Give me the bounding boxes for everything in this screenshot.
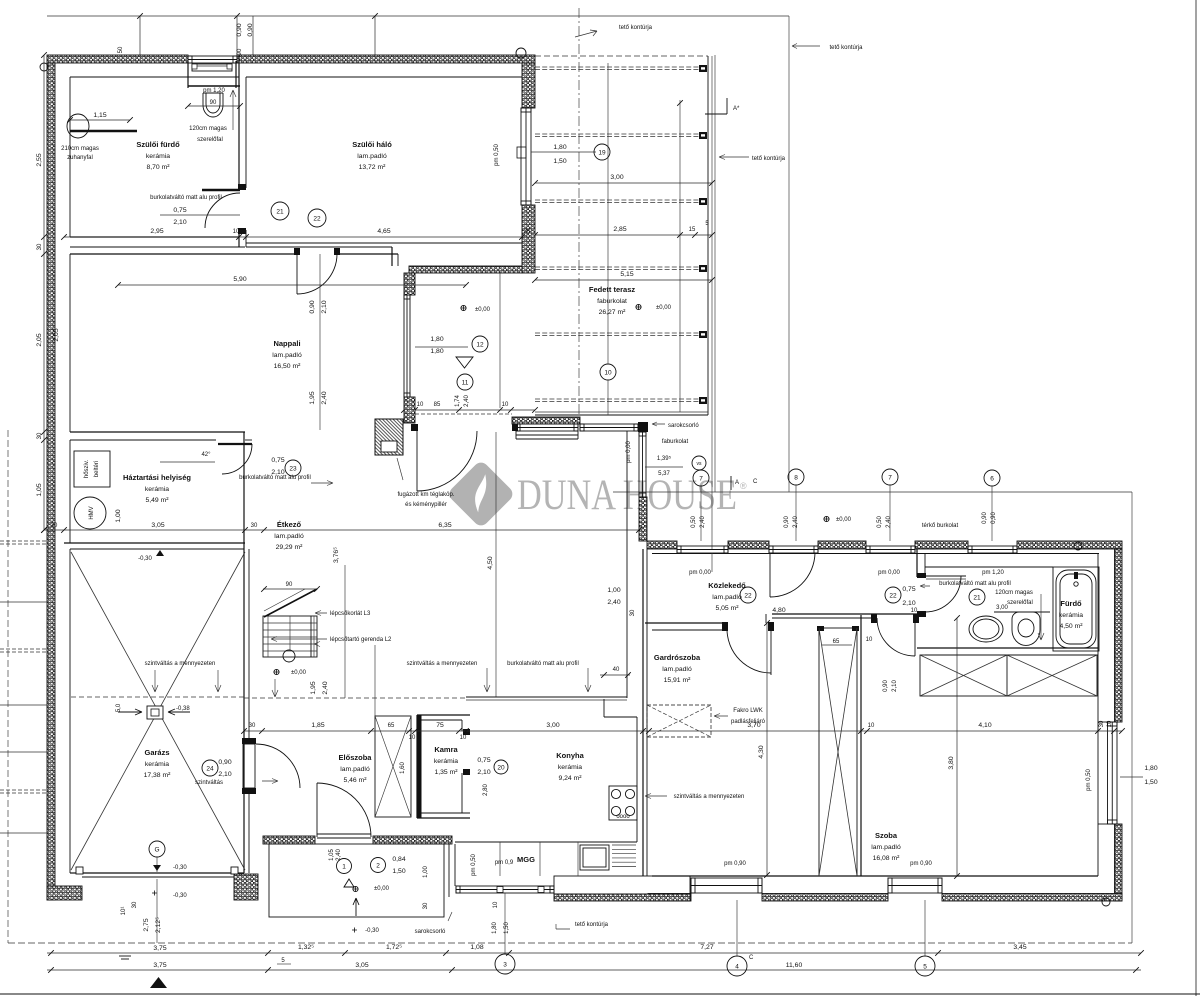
svg-text:1,50: 1,50 xyxy=(392,868,405,875)
svg-text:0,84: 0,84 xyxy=(392,856,405,863)
svg-text:Fürdő: Fürdő xyxy=(1060,599,1082,608)
svg-text:lam.padló: lam.padló xyxy=(662,666,692,673)
svg-text:0,75: 0,75 xyxy=(271,457,284,464)
HMV circle xyxy=(74,497,106,529)
svg-text:4,65: 4,65 xyxy=(377,228,390,235)
svg-text:Háztartási helyiség: Háztartási helyiség xyxy=(123,473,191,482)
szerelofal line xyxy=(994,611,1050,613)
svg-text:30: 30 xyxy=(251,523,258,529)
grid circles bottom xyxy=(495,954,515,974)
svg-text:30: 30 xyxy=(249,723,256,729)
svg-text:10: 10 xyxy=(417,402,424,408)
svg-text:beltéri: beltéri xyxy=(94,461,100,477)
svg-text:pm 0,90: pm 0,90 xyxy=(724,861,746,867)
gardrob door xyxy=(770,629,772,675)
svg-text:lam.padló: lam.padló xyxy=(340,766,370,773)
svg-text:Közlekedő: Közlekedő xyxy=(708,581,746,590)
svg-text:2,40: 2,40 xyxy=(464,395,470,407)
porch slab xyxy=(269,844,444,917)
svg-text:90: 90 xyxy=(237,48,243,55)
B mark + triangle bottom left xyxy=(119,955,131,957)
svg-text:pm 1,20: pm 1,20 xyxy=(203,88,225,94)
main horizontal dim row xyxy=(244,730,1122,732)
svg-text:tető kontúrja: tető kontúrja xyxy=(829,45,863,51)
svg-text:2,10: 2,10 xyxy=(902,600,915,607)
wall xyxy=(512,417,580,424)
svg-text:faburkolat: faburkolat xyxy=(662,439,689,445)
toilet niche bedroom top xyxy=(187,61,189,88)
svg-text:2,95: 2,95 xyxy=(150,228,163,235)
svg-text:8,70 m²: 8,70 m² xyxy=(146,164,170,171)
closet2 in szoba xyxy=(920,655,1097,696)
bath washbasin oval xyxy=(67,114,89,138)
svg-text:5,15: 5,15 xyxy=(620,271,633,278)
corner post sarokoszlop xyxy=(638,422,648,432)
garage door opening xyxy=(82,872,234,874)
nappali dim 5,90 xyxy=(118,284,466,286)
garage walls xyxy=(64,542,245,544)
svg-text:10: 10 xyxy=(1107,720,1113,727)
svg-text:kerámia: kerámia xyxy=(145,486,169,493)
svg-text:±0,00: ±0,00 xyxy=(836,517,852,523)
svg-text:1,80: 1,80 xyxy=(430,336,443,343)
svg-text:1,00: 1,00 xyxy=(607,587,620,594)
kitchen window mullions + jamb xyxy=(497,887,503,893)
svg-text:3,75: 3,75 xyxy=(153,962,166,969)
svg-text:2,10: 2,10 xyxy=(321,300,328,313)
svg-text:tető kontúrja: tető kontúrja xyxy=(752,156,786,162)
roof contour xyxy=(47,15,789,17)
dim 6,35 / 4,50 xyxy=(264,529,639,531)
wing west wall inner xyxy=(642,549,644,876)
svg-text:10: 10 xyxy=(493,901,499,908)
svg-text:7: 7 xyxy=(699,475,703,482)
svg-text:Konyha: Konyha xyxy=(556,751,584,760)
svg-text:65: 65 xyxy=(833,639,840,645)
etkezo door double xyxy=(512,424,518,431)
svg-text:pm 0,00: pm 0,00 xyxy=(626,441,632,463)
svg-text:30: 30 xyxy=(37,432,43,439)
svg-text:13,72 m²: 13,72 m² xyxy=(359,164,387,171)
svg-text:10: 10 xyxy=(233,229,240,235)
wall xyxy=(915,541,968,549)
corridor south wall xyxy=(772,613,917,615)
svg-text:pm 0,50: pm 0,50 xyxy=(1086,769,1092,791)
svg-text:lépcsőtartó gerenda L2: lépcsőtartó gerenda L2 xyxy=(330,637,392,643)
svg-text:1,72⁵: 1,72⁵ xyxy=(386,944,402,951)
svg-text:pm 0,9: pm 0,9 xyxy=(495,860,514,866)
svg-text:1,05: 1,05 xyxy=(329,849,335,861)
wall xyxy=(373,836,452,844)
wall xyxy=(263,836,315,844)
svg-text:0,90: 0,90 xyxy=(784,516,790,528)
wall xyxy=(818,541,866,549)
bath shower wall xyxy=(70,130,137,133)
svg-text:26,27 m²: 26,27 m² xyxy=(599,309,627,316)
section A bottom xyxy=(730,476,732,490)
svg-text:térkő burkolat: térkő burkolat xyxy=(922,523,959,529)
svg-text:0,50: 0,50 xyxy=(877,516,883,528)
svg-text:-0,30: -0,30 xyxy=(173,865,187,871)
svg-text:0,90: 0,90 xyxy=(883,680,889,692)
svg-text:fugázott km téglaköp.: fugázott km téglaköp. xyxy=(397,492,454,498)
svg-text:10: 10 xyxy=(604,369,612,376)
svg-text:lam.padló: lam.padló xyxy=(712,594,742,601)
svg-text:42°: 42° xyxy=(201,452,211,458)
svg-text:hősziv.: hősziv. xyxy=(84,460,90,479)
window dim 1,80/1,50 xyxy=(531,151,596,153)
svg-text:A*: A* xyxy=(733,106,740,112)
eloszoba wardrobe xyxy=(375,716,411,817)
watermark Duna House logo xyxy=(446,459,747,528)
kitchen xyxy=(466,696,627,698)
wall xyxy=(47,886,82,900)
bedroom south wall xyxy=(70,246,245,248)
svg-text:2,40: 2,40 xyxy=(322,681,329,694)
svg-text:szerelőfal: szerelőfal xyxy=(1007,600,1033,606)
svg-text:90: 90 xyxy=(286,582,293,588)
gardrob north wall xyxy=(645,622,727,624)
svg-text:15: 15 xyxy=(689,227,696,233)
svg-text:10: 10 xyxy=(460,735,467,741)
wall xyxy=(728,541,769,549)
bath door arc xyxy=(925,576,961,612)
bath south wall xyxy=(917,647,1098,649)
svg-text:2,80: 2,80 xyxy=(483,784,489,796)
svg-text:3,45: 3,45 xyxy=(1013,944,1026,951)
svg-text:22: 22 xyxy=(744,592,752,599)
svg-text:30: 30 xyxy=(37,243,43,250)
wall exterior top right xyxy=(237,55,535,63)
svg-text:-0,30: -0,30 xyxy=(173,893,187,899)
svg-text:65: 65 xyxy=(388,723,395,729)
svg-text:0,90: 0,90 xyxy=(247,23,254,36)
szoba door xyxy=(913,614,919,623)
svg-text:0,75: 0,75 xyxy=(173,207,186,214)
svg-text:10: 10 xyxy=(866,637,873,643)
svg-text:12: 12 xyxy=(476,341,484,348)
svg-text:22: 22 xyxy=(889,592,897,599)
svg-text:5,0: 5,0 xyxy=(116,703,122,712)
svg-text:szintváltás: szintváltás xyxy=(195,780,223,786)
svg-text:vs: vs xyxy=(697,461,703,467)
svg-text:lam.padló: lam.padló xyxy=(272,352,302,359)
svg-text:HMV: HMV xyxy=(89,506,95,519)
svg-text:Gardrószoba: Gardrószoba xyxy=(654,653,701,662)
svg-text:7,27: 7,27 xyxy=(700,944,713,951)
svg-text:30: 30 xyxy=(132,901,138,908)
nappali room xyxy=(69,254,71,432)
svg-text:4: 4 xyxy=(735,963,739,970)
kitchen south wall block xyxy=(554,876,690,894)
svg-text:3,05: 3,05 xyxy=(151,522,164,529)
svg-text:30: 30 xyxy=(630,609,636,616)
svg-text:29,29 m²: 29,29 m² xyxy=(276,544,304,551)
bath fixtures xyxy=(1053,567,1099,651)
terrace: Fedett terasz xyxy=(535,55,708,57)
sink xyxy=(580,845,609,870)
svg-text:pm 0,00: pm 0,00 xyxy=(878,570,900,576)
svg-text:0,75: 0,75 xyxy=(477,757,490,764)
svg-text:Szülői háló: Szülői háló xyxy=(352,140,392,149)
svg-text:2,12⁵: 2,12⁵ xyxy=(155,917,162,933)
bedroom door arc xyxy=(297,254,337,294)
page frame xyxy=(1195,0,1197,996)
bottom dimension rows xyxy=(47,952,1141,954)
svg-text:2,05: 2,05 xyxy=(36,333,43,346)
wall xyxy=(522,63,535,108)
svg-text:±0,00: ±0,00 xyxy=(656,305,672,311)
garage X cross xyxy=(71,552,245,870)
svg-text:4,50 m²: 4,50 m² xyxy=(1059,623,1083,630)
wall wing west xyxy=(639,497,647,541)
toilet right wing xyxy=(1012,612,1040,645)
svg-text:±0,00: ±0,00 xyxy=(374,886,390,892)
svg-text:22: 22 xyxy=(313,215,321,222)
svg-text:1,15: 1,15 xyxy=(93,112,106,119)
wall xyxy=(942,894,1122,902)
svg-text:2: 2 xyxy=(376,862,380,869)
svg-text:és kéménypillér: és kéménypillér xyxy=(405,502,447,508)
svg-text:2,85: 2,85 xyxy=(613,226,626,233)
level marks porch xyxy=(337,859,352,874)
svg-text:tető kontúrja: tető kontúrja xyxy=(619,25,653,31)
svg-text:1,08: 1,08 xyxy=(470,944,483,951)
top dimension lines xyxy=(139,16,141,55)
stairs xyxy=(263,616,317,657)
svg-text:sarokcsorló: sarokcsorló xyxy=(415,929,446,935)
wall xyxy=(762,894,888,902)
svg-text:-0,38: -0,38 xyxy=(176,706,190,712)
svg-text:2,10: 2,10 xyxy=(218,771,231,778)
wall xyxy=(554,894,690,901)
svg-text:3,05: 3,05 xyxy=(355,962,368,969)
svg-text:9,24 m²: 9,24 m² xyxy=(558,775,582,782)
svg-text:0,90: 0,90 xyxy=(236,23,243,36)
svg-text:1,50: 1,50 xyxy=(553,158,566,165)
svg-text:1,74: 1,74 xyxy=(455,395,461,407)
wall xyxy=(1115,824,1123,901)
cooktop xyxy=(609,786,637,820)
svg-text:Szoba: Szoba xyxy=(875,831,898,840)
svg-text:3: 3 xyxy=(503,961,507,968)
fakro attic xyxy=(647,705,711,737)
kemeny pillar xyxy=(375,419,403,455)
svg-text:C: C xyxy=(749,955,754,961)
svg-text:±0,00: ±0,00 xyxy=(475,307,491,313)
toilet xyxy=(188,85,240,87)
svg-text:szerelőfal: szerelőfal xyxy=(197,137,223,143)
svg-text:burkolatváltó matt alu profil: burkolatváltó matt alu profil xyxy=(939,581,1011,587)
svg-text:Nappali: Nappali xyxy=(273,339,300,348)
svg-text:23: 23 xyxy=(289,465,297,472)
svg-text:4,10: 4,10 xyxy=(978,722,991,729)
garage-eloszoba door xyxy=(242,738,256,744)
wall xyxy=(404,397,415,423)
svg-text:1,32⁵: 1,32⁵ xyxy=(298,944,314,951)
svg-text:11,60: 11,60 xyxy=(786,962,803,969)
svg-text:2,10: 2,10 xyxy=(271,469,284,476)
svg-text:10: 10 xyxy=(868,723,875,729)
svg-text:szintváltás a mennyezeten: szintváltás a mennyezeten xyxy=(145,661,216,667)
svg-text:szintváltás a mennyezeten: szintváltás a mennyezeten xyxy=(674,794,745,800)
right wing floor lines xyxy=(652,875,1098,877)
svg-text:burkolatváltó matt alu profil: burkolatváltó matt alu profil xyxy=(507,661,579,667)
svg-text:3,70: 3,70 xyxy=(747,722,760,729)
svg-text:3,00: 3,00 xyxy=(610,174,623,181)
svg-text:2,40: 2,40 xyxy=(336,849,342,861)
dim 40 niche xyxy=(600,674,630,676)
svg-text:10¹: 10¹ xyxy=(121,907,127,916)
svg-text:-0,30: -0,30 xyxy=(365,928,379,934)
svg-text:120cm magas: 120cm magas xyxy=(995,590,1033,596)
wall xyxy=(1017,541,1122,549)
svg-text:85: 85 xyxy=(434,402,441,408)
svg-text:szintváltás a mennyezeten: szintváltás a mennyezeten xyxy=(407,661,478,667)
svg-text:C: C xyxy=(753,479,758,485)
vertical dims right wing xyxy=(766,623,768,875)
svg-text:0,90: 0,90 xyxy=(309,300,316,313)
svg-text:sarokcsorló: sarokcsorló xyxy=(668,423,699,429)
wall xyxy=(1115,549,1123,722)
svg-text:10: 10 xyxy=(502,402,509,408)
svg-text:®: ® xyxy=(740,481,747,491)
svg-text:21: 21 xyxy=(973,594,981,601)
svg-text:1: 1 xyxy=(342,863,346,870)
svg-text:5,37: 5,37 xyxy=(658,471,670,477)
svg-text:1,95: 1,95 xyxy=(309,391,316,404)
svg-text:faburkolat: faburkolat xyxy=(597,298,627,305)
svg-text:5,90: 5,90 xyxy=(233,276,246,283)
wall exterior left xyxy=(47,63,55,900)
porch west window xyxy=(404,295,410,397)
ceiling break dashed xyxy=(244,697,466,699)
dims bedroom bottom xyxy=(64,236,530,238)
svg-text:kerámia: kerámia xyxy=(1059,612,1083,619)
svg-text:11: 11 xyxy=(462,379,469,386)
kamra xyxy=(417,714,470,716)
svg-text:120cm magas: 120cm magas xyxy=(189,126,227,132)
svg-text:0,90: 0,90 xyxy=(218,759,231,766)
svg-text:4,50: 4,50 xyxy=(487,556,494,569)
dim 3,05 xyxy=(44,529,264,531)
etkezo east niche xyxy=(626,431,628,698)
svg-text:8: 8 xyxy=(794,474,798,481)
east glass wall of etkezo xyxy=(639,432,646,497)
svg-text:3,75: 3,75 xyxy=(153,945,166,952)
svg-text:MGG: MGG xyxy=(517,855,535,864)
haztartasi helyiseg xyxy=(70,431,245,433)
kitchen south windows xyxy=(456,886,554,893)
svg-text:pm 0,50: pm 0,50 xyxy=(494,144,500,166)
svg-text:5,46 m²: 5,46 m² xyxy=(343,777,367,784)
kitchen lower counter xyxy=(455,841,637,843)
svg-text:lam.padló: lam.padló xyxy=(274,533,304,540)
svg-text:2,40: 2,40 xyxy=(886,516,892,528)
section mark A* xyxy=(705,113,727,115)
svg-text:±0,00: ±0,00 xyxy=(291,670,307,676)
svg-text:4,30: 4,30 xyxy=(758,745,765,758)
svg-text:2,40: 2,40 xyxy=(607,599,620,606)
svg-text:G: G xyxy=(154,846,159,853)
svg-text:kerámia: kerámia xyxy=(434,758,458,765)
svg-text:16,50 m²: 16,50 m² xyxy=(274,363,302,370)
svg-text:75: 75 xyxy=(436,722,444,729)
svg-text:1,95: 1,95 xyxy=(310,681,317,694)
wall xyxy=(647,541,677,549)
haztartasi door xyxy=(218,443,252,445)
svg-text:210cm magas: 210cm magas xyxy=(61,146,99,152)
closet X gardrob/szoba xyxy=(819,628,857,876)
svg-text:20: 20 xyxy=(497,764,505,771)
corridor entry door xyxy=(769,553,771,597)
svg-text:2,10: 2,10 xyxy=(173,219,186,226)
bath door xyxy=(202,189,240,191)
svg-text:pm 0,90: pm 0,90 xyxy=(910,861,932,867)
svg-text:1,80: 1,80 xyxy=(430,348,443,355)
svg-text:lépcsőkorlát L3: lépcsőkorlát L3 xyxy=(330,611,371,617)
svg-text:zuhanyfal: zuhanyfal xyxy=(67,155,93,161)
center box xyxy=(147,706,163,719)
small circle top-left xyxy=(40,63,48,71)
svg-text:40: 40 xyxy=(613,667,620,673)
svg-text:2,10: 2,10 xyxy=(477,769,490,776)
niche window top xyxy=(188,56,237,63)
wall xyxy=(404,273,415,295)
svg-text:30: 30 xyxy=(423,902,429,909)
svg-text:6: 6 xyxy=(990,475,994,482)
svg-text:A: A xyxy=(735,480,739,486)
front door xyxy=(317,783,371,837)
svg-text:Étkező: Étkező xyxy=(277,520,302,529)
svg-text:1,85: 1,85 xyxy=(311,722,324,729)
wall xyxy=(234,874,258,900)
left col dims xyxy=(0,540,47,542)
svg-text:0,50: 0,50 xyxy=(691,516,697,528)
svg-text:30: 30 xyxy=(1099,720,1105,727)
svg-text:kerámia: kerámia xyxy=(146,153,170,160)
svg-text:5: 5 xyxy=(923,963,927,970)
svg-text:2,40: 2,40 xyxy=(321,391,328,404)
wall exterior top left xyxy=(47,55,188,63)
circles 21 22 bedroom xyxy=(271,202,289,220)
svg-text:2,05: 2,05 xyxy=(53,328,60,341)
svg-text:4,80: 4,80 xyxy=(772,607,785,614)
svg-text:1,35 m²: 1,35 m² xyxy=(434,769,458,776)
svg-text:oooo: oooo xyxy=(616,814,630,820)
svg-text:17,38 m²: 17,38 m² xyxy=(144,772,172,779)
corridor Kozlekedo xyxy=(711,553,713,572)
svg-text:burkolatváltó matt alu profil: burkolatváltó matt alu profil xyxy=(150,195,222,201)
svg-text:30: 30 xyxy=(51,523,58,529)
svg-text:pm 1,20: pm 1,20 xyxy=(982,570,1004,576)
hoszivattyu box xyxy=(74,451,110,487)
svg-text:2,10: 2,10 xyxy=(892,680,898,692)
svg-text:0,90: 0,90 xyxy=(982,512,988,524)
svg-text:24: 24 xyxy=(206,765,214,772)
svg-text:Szülői fürdő: Szülői fürdő xyxy=(136,140,180,149)
svg-text:lam.padló: lam.padló xyxy=(357,153,387,160)
svg-text:1,00: 1,00 xyxy=(115,509,122,522)
svg-text:3,80: 3,80 xyxy=(948,756,955,769)
svg-text:0,75: 0,75 xyxy=(902,586,915,593)
svg-text:90: 90 xyxy=(210,100,217,106)
svg-text:Előszoba: Előszoba xyxy=(339,753,373,762)
bath west wall xyxy=(916,549,918,577)
svg-text:7: 7 xyxy=(888,474,892,481)
wall xyxy=(409,266,522,273)
counters xyxy=(604,716,637,718)
